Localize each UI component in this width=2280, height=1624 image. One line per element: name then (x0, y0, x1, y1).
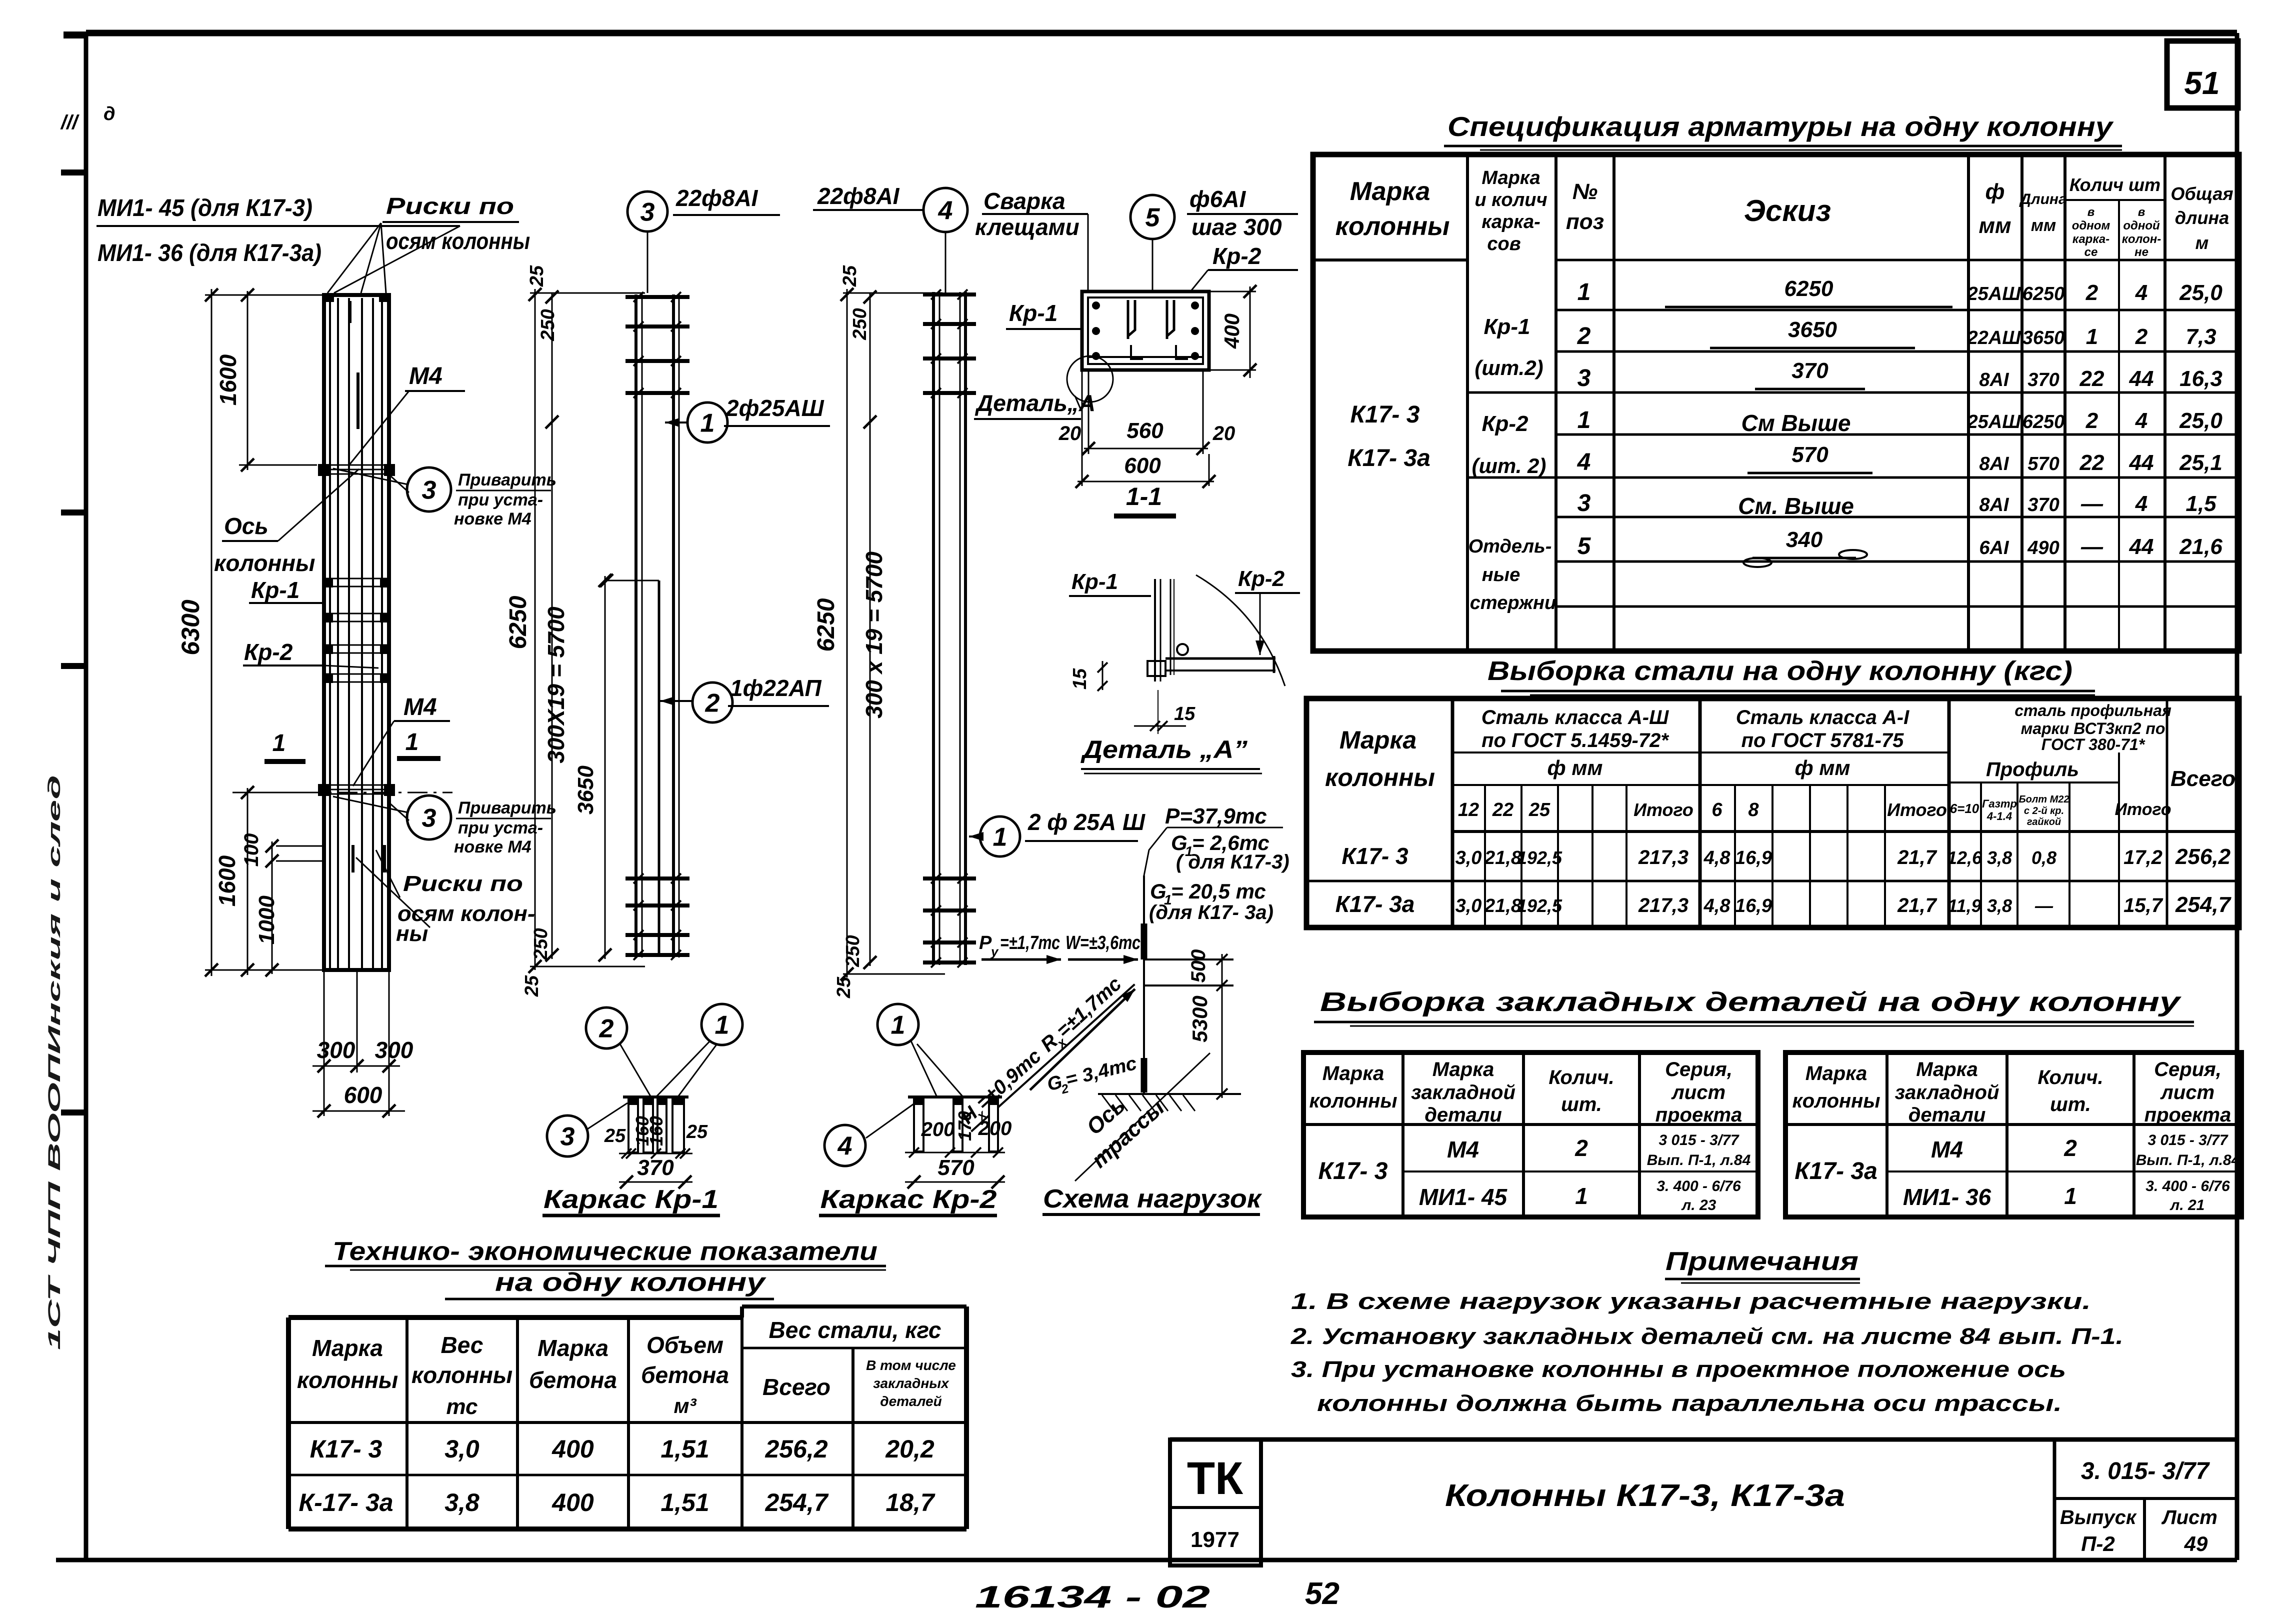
svg-text:Сварка: Сварка (983, 188, 1065, 214)
svg-text:217,3: 217,3 (1638, 846, 1688, 868)
svg-text:В том числе: В том числе (866, 1357, 956, 1373)
svg-text:колонны: колонны (1309, 1090, 1397, 1112)
svg-text:3,0: 3,0 (1455, 847, 1482, 868)
svg-text:( для К17-3): ( для К17-3) (1176, 851, 1289, 873)
svg-text:колонны: колонны (1792, 1090, 1880, 1112)
svg-text:44: 44 (2129, 366, 2154, 391)
svg-text:21,6: 21,6 (2179, 534, 2222, 559)
svg-text:Р: Р (979, 932, 992, 953)
svg-text:1ф22АП: 1ф22АП (730, 675, 822, 701)
svg-text:44: 44 (2129, 534, 2154, 559)
svg-text:не: не (2134, 245, 2148, 259)
svg-text:400: 400 (551, 1488, 594, 1516)
svg-text:1,51: 1,51 (660, 1488, 709, 1516)
svg-text:стержни: стержни (1470, 592, 1556, 613)
svg-text:№: № (1572, 179, 1597, 204)
svg-text:15: 15 (1174, 703, 1195, 724)
svg-text:шаг 300: шаг 300 (1191, 214, 1282, 240)
svg-text:20: 20 (1058, 422, 1081, 444)
svg-text:Выборка закладных деталей: Выборка закладных деталей на одну колонн… (1320, 987, 2182, 1017)
svg-text:25: 25 (833, 976, 854, 998)
svg-text:=±0,9тс: =±0,9тс (972, 1045, 1045, 1114)
svg-text:мм: мм (2031, 216, 2056, 235)
svg-text:1: 1 (700, 409, 715, 438)
svg-text:6250: 6250 (813, 598, 839, 651)
svg-text:4-1.4: 4-1.4 (1986, 810, 2012, 822)
svg-text:при уста-: при уста- (458, 490, 543, 509)
svg-text:=±1,7тс: =±1,7тс (1000, 932, 1060, 953)
svg-text:2ф25АШ: 2ф25АШ (725, 395, 824, 421)
svg-text:Длина: Длина (2018, 191, 2066, 207)
svg-text:17,2: 17,2 (2123, 846, 2162, 868)
svg-text:м³: м³ (673, 1394, 696, 1417)
svg-text:марки ВСТ3кп2 по: марки ВСТ3кп2 по (2021, 719, 2165, 737)
svg-text:Марка: Марка (1350, 177, 1430, 206)
svg-text:22: 22 (2079, 366, 2104, 391)
svg-text:д: д (103, 103, 115, 124)
svg-text:2 ф 25А Ш: 2 ф 25А Ш (1027, 809, 1145, 835)
svg-text:Деталь „А”: Деталь „А” (1080, 735, 1247, 763)
svg-text:м: м (2195, 232, 2209, 253)
svg-text:1: 1 (2086, 324, 2098, 349)
svg-text:К17- 3: К17- 3 (310, 1435, 382, 1463)
svg-text:5: 5 (1145, 203, 1160, 232)
svg-text:новке М4: новке М4 (454, 837, 531, 856)
svg-text:ТК: ТК (1187, 1453, 1243, 1504)
svg-text:3 015 - 3/77: 3 015 - 3/77 (1658, 1132, 1739, 1148)
svg-text:длина: длина (2175, 207, 2229, 228)
svg-text:4: 4 (2135, 408, 2147, 433)
svg-text:5300: 5300 (1188, 995, 1211, 1042)
svg-text:колонны: колонны (1335, 212, 1450, 241)
svg-text:сов: сов (1487, 233, 1520, 254)
svg-text:20,2: 20,2 (885, 1435, 934, 1463)
svg-text:25,1: 25,1 (2179, 450, 2222, 475)
svg-text:15: 15 (1069, 668, 1090, 689)
svg-text:250: 250 (530, 928, 551, 960)
svg-text:—: — (2080, 534, 2103, 559)
svg-text:Итого: Итого (1887, 799, 1947, 820)
svg-text:ф мм: ф мм (1795, 756, 1850, 779)
svg-text:детали: детали (1424, 1104, 1502, 1126)
svg-text:бетона: бетона (641, 1362, 729, 1388)
svg-text:16,9: 16,9 (1735, 847, 1772, 868)
svg-text:Эскиз: Эскиз (1744, 194, 1831, 227)
svg-text:П-2: П-2 (2081, 1532, 2115, 1555)
svg-text:гайкой: гайкой (2027, 816, 2061, 827)
svg-text:400: 400 (551, 1435, 594, 1463)
svg-text:3: 3 (640, 198, 655, 227)
svg-text:Колич.: Колич. (2037, 1066, 2103, 1088)
svg-text:8АI: 8АI (1979, 494, 2009, 515)
svg-text:2: 2 (1574, 1135, 1588, 1161)
svg-text:49: 49 (2184, 1532, 2208, 1555)
svg-text:колонны: колонны (411, 1362, 512, 1388)
svg-text:21,8: 21,8 (1484, 895, 1522, 916)
svg-text:шт.: шт. (2050, 1093, 2091, 1115)
svg-text:340: 340 (1786, 527, 1823, 552)
svg-text:400: 400 (1220, 313, 1243, 349)
svg-text:мм: мм (1978, 213, 2011, 238)
svg-text:W=±3,6тс: W=±3,6тс (1065, 932, 1140, 953)
svg-text:2: 2 (1577, 323, 1591, 349)
svg-text:2: 2 (2135, 324, 2148, 349)
svg-text:1,5: 1,5 (2185, 491, 2216, 516)
svg-text:100: 100 (240, 833, 262, 867)
svg-text:25,0: 25,0 (2179, 280, 2222, 305)
svg-text:1: 1 (1577, 279, 1591, 305)
svg-text:л. 21: л. 21 (2169, 1197, 2205, 1213)
svg-text:1: 1 (891, 1011, 905, 1040)
svg-text:6250: 6250 (1784, 276, 1833, 301)
svg-text:6250: 6250 (2022, 411, 2065, 432)
svg-text:Лист: Лист (2161, 1506, 2217, 1528)
svg-text:Общая: Общая (2170, 183, 2233, 204)
svg-text:Колонны К17-3, К17-3а: Колонны К17-3, К17-3а (1445, 1478, 1845, 1513)
svg-text:К17- 3а: К17- 3а (1335, 891, 1415, 917)
svg-text:МИ1- 36 (для К17-3а): МИ1- 36 (для К17-3а) (97, 240, 321, 266)
svg-text:См. Выше: См. Выше (1738, 493, 1854, 519)
svg-text:1600: 1600 (215, 354, 241, 405)
svg-text:8АI: 8АI (1979, 369, 2009, 390)
svg-text:6250: 6250 (2022, 283, 2065, 304)
svg-text:М4: М4 (403, 694, 437, 720)
svg-text:Серия,: Серия, (1665, 1058, 1732, 1080)
svg-text:1: 1 (2064, 1183, 2077, 1209)
svg-text:1977: 1977 (1190, 1527, 1239, 1552)
svg-text:МИ1- 45: МИ1- 45 (1419, 1184, 1508, 1210)
svg-text:6300: 6300 (176, 599, 204, 655)
svg-text:(для К17- 3а): (для К17- 3а) (1149, 901, 1273, 923)
svg-text:52: 52 (1305, 1576, 1339, 1611)
svg-text:Вып. П-1, л.84: Вып. П-1, л.84 (1647, 1152, 1751, 1168)
svg-text:1: 1 (1575, 1183, 1588, 1209)
svg-text:370: 370 (1791, 358, 1828, 383)
svg-text:3,0: 3,0 (1455, 895, 1482, 916)
svg-text:Вес стали, кгс: Вес стали, кгс (769, 1317, 941, 1343)
svg-text:одной: одной (2123, 219, 2160, 232)
svg-text:490: 490 (2027, 537, 2059, 558)
svg-text:22: 22 (1492, 799, 1513, 820)
svg-text:16134 - 02: 16134 - 02 (975, 1580, 1210, 1614)
svg-text:25: 25 (686, 1121, 708, 1142)
svg-text:2: 2 (705, 689, 720, 718)
svg-text:217,3: 217,3 (1638, 894, 1688, 916)
svg-text:1,51: 1,51 (660, 1435, 709, 1463)
svg-text:1. В схеме нагрузок указаны: 1. В схеме нагрузок указаны расчетные на… (1291, 1288, 2091, 1314)
svg-text:25: 25 (1528, 799, 1550, 820)
svg-text:Объем: Объем (646, 1332, 723, 1358)
svg-text:Кр-1: Кр-1 (1071, 569, 1118, 594)
svg-text:6АI: 6АI (1979, 537, 2009, 558)
svg-text:Технико- экономические пока: Технико- экономические показатели (332, 1237, 877, 1266)
svg-text:Кр-2: Кр-2 (1481, 411, 1528, 436)
svg-text:одном: одном (2072, 219, 2110, 232)
svg-text:Отдель-: Отдель- (1468, 536, 1552, 557)
svg-text:500: 500 (1187, 949, 1209, 983)
svg-text:25,0: 25,0 (2179, 408, 2222, 433)
svg-text:1: 1 (405, 729, 419, 755)
svg-text:11,9: 11,9 (1947, 895, 1981, 916)
svg-text:3650: 3650 (2022, 327, 2065, 348)
svg-text:= 20,5 тс: = 20,5 тс (1171, 879, 1266, 903)
svg-text:2: 2 (2085, 280, 2098, 305)
svg-text:250: 250 (842, 935, 863, 967)
svg-text:Профиль: Профиль (1986, 758, 2079, 780)
svg-text:См Выше: См Выше (1741, 410, 1850, 436)
svg-text:250: 250 (537, 309, 558, 341)
svg-text:21,8: 21,8 (1484, 847, 1522, 868)
svg-text:3,8: 3,8 (1987, 895, 2012, 916)
svg-text:(шт.2): (шт.2) (1474, 356, 1543, 379)
svg-text:25АШ: 25АШ (1967, 283, 2021, 304)
svg-text:колонны: колонны (297, 1367, 398, 1393)
svg-text:ф6АІ: ф6АІ (1189, 186, 1246, 212)
svg-text:Кр-1: Кр-1 (1009, 300, 1057, 326)
svg-text:ГОСТ 380-71*: ГОСТ 380-71* (2041, 735, 2145, 753)
svg-text:3: 3 (1577, 365, 1591, 391)
svg-text:К17- 3: К17- 3 (1318, 1158, 1388, 1184)
svg-text:Марка: Марка (537, 1335, 608, 1361)
svg-text:Марка: Марка (1339, 726, 1416, 754)
svg-text:М4: М4 (1447, 1136, 1479, 1162)
svg-text:Болт М22: Болт М22 (2018, 794, 2069, 805)
svg-text:370: 370 (2027, 369, 2059, 390)
svg-text:Итого: Итого (2114, 800, 2171, 819)
svg-text:К17- 3а: К17- 3а (1347, 445, 1430, 471)
svg-text:Ось: Ось (224, 513, 268, 539)
svg-text:по ГОСТ 5.1459-72*: по ГОСТ 5.1459-72* (1481, 729, 1669, 751)
svg-text:Колич.: Колич. (1548, 1066, 1614, 1088)
svg-text:Итого: Итого (1633, 799, 1693, 820)
svg-text:560: 560 (1126, 418, 1163, 443)
svg-text:4: 4 (2135, 491, 2147, 516)
svg-text:192,5: 192,5 (1517, 847, 1562, 868)
svg-text:570: 570 (2027, 453, 2059, 474)
svg-text:—: — (2034, 895, 2053, 916)
svg-text:на одну колонну: на одну колонну (495, 1268, 767, 1297)
svg-text:шт.: шт. (1561, 1093, 1602, 1115)
svg-text:4,8: 4,8 (1703, 895, 1731, 916)
svg-text:Схема нагрузок: Схема нагрузок (1043, 1184, 1262, 1213)
svg-text:колон-: колон- (2122, 232, 2161, 246)
svg-text:сталь профильная: сталь профильная (2014, 701, 2171, 719)
svg-text:300: 300 (375, 1037, 413, 1063)
svg-text:К17- 3а: К17- 3а (1794, 1158, 1877, 1184)
svg-text:18,7: 18,7 (885, 1488, 935, 1516)
svg-text:3: 3 (422, 476, 436, 505)
svg-text:М4: М4 (1931, 1136, 1963, 1162)
svg-text:Каркас Кр-2: Каркас Кр-2 (820, 1185, 997, 1214)
svg-text:закладных: закладных (873, 1375, 949, 1391)
svg-text:и колич: и колич (1474, 189, 1547, 210)
svg-text:3,0: 3,0 (444, 1435, 479, 1463)
svg-text:25: 25 (521, 975, 542, 997)
svg-text:лист: лист (1671, 1081, 1725, 1103)
svg-text:300: 300 (317, 1037, 355, 1063)
svg-text:200: 200 (978, 1117, 1012, 1139)
svg-text:колонны: колонны (214, 550, 315, 576)
svg-text:3: 3 (422, 804, 436, 833)
svg-text:15,7: 15,7 (2123, 894, 2163, 916)
svg-text:4: 4 (837, 1132, 852, 1161)
svg-text:12: 12 (1458, 799, 1479, 820)
svg-text:8АI: 8АI (1979, 453, 2009, 474)
svg-text:22: 22 (2079, 450, 2104, 475)
svg-text:колонны должна быть паралле: колонны должна быть параллельна оси трас… (1317, 1390, 2062, 1416)
svg-text:Марка: Марка (1916, 1058, 1978, 1080)
svg-text:Марка: Марка (1322, 1062, 1384, 1084)
svg-text:3650: 3650 (1788, 317, 1837, 342)
svg-text:закладной: закладной (1411, 1081, 1515, 1103)
svg-text:ные: ные (1482, 564, 1520, 585)
svg-text:///: /// (60, 111, 79, 133)
svg-text:осям колонны: осям колонны (386, 228, 530, 254)
svg-text:детали: детали (1908, 1104, 1986, 1126)
svg-text:3. 015- 3/77: 3. 015- 3/77 (2081, 1458, 2210, 1484)
svg-text:570: 570 (937, 1155, 974, 1180)
svg-text:при уста-: при уста- (458, 818, 543, 837)
svg-text:160: 160 (646, 1116, 666, 1146)
svg-text:Риски по: Риски по (386, 193, 514, 219)
svg-text:1-1: 1-1 (1126, 482, 1162, 510)
svg-text:Приварить: Приварить (458, 798, 556, 817)
svg-text:поз: поз (1566, 209, 1604, 234)
svg-text:300Х19 = 5700: 300Х19 = 5700 (543, 606, 569, 763)
svg-text:22ф8АІ: 22ф8АІ (817, 183, 900, 209)
svg-text:в: в (2138, 205, 2145, 219)
svg-text:170: 170 (954, 1111, 975, 1141)
svg-text:л. 23: л. 23 (1681, 1197, 1716, 1213)
svg-text:25: 25 (604, 1125, 626, 1146)
svg-text:254,7: 254,7 (2175, 892, 2232, 917)
svg-text:Примечания: Примечания (1665, 1247, 1858, 1276)
svg-text:Марка: Марка (1805, 1062, 1867, 1084)
svg-text:МИ1- 45 (для К17-3): МИ1- 45 (для К17-3) (97, 195, 312, 221)
svg-text:2: 2 (599, 1014, 614, 1043)
svg-text:1: 1 (715, 1011, 729, 1040)
svg-text:3. 400 - 6/76: 3. 400 - 6/76 (2145, 1178, 2230, 1194)
svg-text:16,9: 16,9 (1735, 895, 1772, 916)
svg-text:Сталь класса А-I: Сталь класса А-I (1736, 706, 1909, 728)
svg-text:1: 1 (993, 823, 1007, 852)
svg-text:3: 3 (1577, 490, 1591, 516)
svg-text:8: 8 (1748, 799, 1759, 820)
svg-text:3. При установке колонны в: 3. При установке колонны в проектное пол… (1291, 1356, 2066, 1382)
svg-text:Марка: Марка (1432, 1058, 1494, 1080)
svg-text:Вып. П-1, л.84: Вып. П-1, л.84 (2136, 1152, 2240, 1168)
svg-text:2: 2 (2085, 408, 2098, 433)
svg-text:Кр-1: Кр-1 (251, 577, 299, 603)
svg-text:21,7: 21,7 (1897, 894, 1937, 916)
svg-text:Марка: Марка (1481, 167, 1540, 188)
svg-text:у: у (990, 944, 999, 959)
svg-text:М4: М4 (409, 363, 442, 389)
svg-text:Кр-1: Кр-1 (1483, 314, 1530, 339)
svg-text:К17- 3: К17- 3 (1350, 401, 1420, 428)
svg-text:22АШ: 22АШ (1967, 327, 2021, 348)
svg-text:1СТ ЧПП ВООПИнския и след: 1СТ ЧПП ВООПИнския и след (45, 775, 64, 1350)
svg-text:ф: ф (1985, 179, 2005, 204)
svg-text:Р=37,9тс: Р=37,9тс (1165, 804, 1267, 828)
svg-text:карка-: карка- (1481, 211, 1540, 232)
svg-text:600: 600 (1124, 453, 1161, 478)
svg-text:Серия,: Серия, (2154, 1058, 2221, 1080)
svg-text:лист: лист (2160, 1081, 2214, 1103)
svg-text:192,5: 192,5 (1517, 895, 1562, 916)
svg-text:с 2-й кр.: с 2-й кр. (2024, 805, 2064, 816)
svg-text:ны: ны (396, 921, 428, 946)
svg-text:1: 1 (272, 730, 286, 756)
svg-text:1: 1 (1577, 407, 1591, 433)
svg-text:370: 370 (637, 1155, 674, 1180)
svg-text:проекта: проекта (1655, 1104, 1742, 1126)
svg-text:К-17- 3а: К-17- 3а (298, 1488, 393, 1516)
svg-text:256,2: 256,2 (764, 1435, 827, 1463)
svg-text:= 3,4тс: = 3,4тс (1063, 1053, 1139, 1091)
svg-text:2. Установку закладных детал: 2. Установку закладных деталей см. на ли… (1290, 1323, 2123, 1349)
svg-text:4: 4 (938, 196, 953, 225)
svg-text:0,8: 0,8 (2031, 847, 2056, 868)
svg-text:по ГОСТ 5781-75: по ГОСТ 5781-75 (1741, 729, 1904, 751)
svg-text:клещами: клещами (975, 214, 1079, 240)
svg-text:Выборка стали на одну коло: Выборка стали на одну колонну (кгс) (1487, 656, 2072, 686)
svg-text:новке М4: новке М4 (454, 509, 531, 528)
svg-text:колонны: колонны (1325, 763, 1435, 791)
svg-text:370: 370 (2027, 494, 2059, 515)
svg-text:Всего: Всего (762, 1374, 830, 1400)
svg-text:16,3: 16,3 (2179, 366, 2222, 391)
svg-text:570: 570 (1791, 442, 1828, 467)
svg-text:3: 3 (560, 1122, 575, 1151)
svg-text:51: 51 (2184, 65, 2219, 101)
svg-text:21,7: 21,7 (1897, 846, 1937, 868)
svg-text:Кр-2: Кр-2 (244, 639, 293, 665)
svg-text:6250: 6250 (505, 595, 531, 649)
svg-text:12,6: 12,6 (1947, 847, 1982, 868)
svg-text:—: — (2080, 491, 2103, 516)
svg-text:4,8: 4,8 (1703, 847, 1731, 868)
svg-text:Выпуск: Выпуск (2060, 1506, 2137, 1528)
svg-text:254,7: 254,7 (764, 1488, 828, 1516)
svg-text:25: 25 (839, 265, 860, 287)
svg-text:3,8: 3,8 (1987, 847, 2012, 868)
svg-text:6: 6 (1711, 799, 1722, 820)
svg-text:Кр-2: Кр-2 (1212, 243, 1261, 269)
svg-text:К17- 3: К17- 3 (1341, 843, 1408, 869)
svg-text:тс: тс (446, 1394, 477, 1419)
svg-text:(шт. 2): (шт. 2) (1472, 454, 1546, 477)
svg-text:256,2: 256,2 (2175, 844, 2231, 869)
svg-text:Спецификация арматуры на: Спецификация арматуры на одну колонну (1447, 111, 2114, 142)
svg-text:Сталь класса А-Ш: Сталь класса А-Ш (1481, 706, 1669, 728)
svg-text:Каркас Кр-1: Каркас Кр-1 (543, 1185, 718, 1214)
svg-text:Газтр: Газтр (1982, 797, 2017, 810)
svg-text:карка-: карка- (2072, 232, 2109, 246)
svg-text:Вес: Вес (441, 1332, 483, 1358)
svg-text:закладной: закладной (1895, 1081, 1999, 1103)
svg-text:5: 5 (1577, 533, 1591, 559)
svg-text:проекта: проекта (2144, 1104, 2231, 1126)
svg-text:3 015 - 3/77: 3 015 - 3/77 (2147, 1132, 2228, 1148)
svg-text:250: 250 (849, 308, 870, 340)
svg-text:20: 20 (1212, 422, 1235, 444)
svg-text:се: се (2084, 245, 2098, 259)
svg-text:Колич шт: Колич шт (2069, 174, 2160, 195)
svg-text:в: в (2087, 205, 2095, 219)
svg-text:300 х 19 = 5700: 300 х 19 = 5700 (861, 551, 887, 718)
svg-text:25АШ: 25АШ (1967, 411, 2021, 432)
